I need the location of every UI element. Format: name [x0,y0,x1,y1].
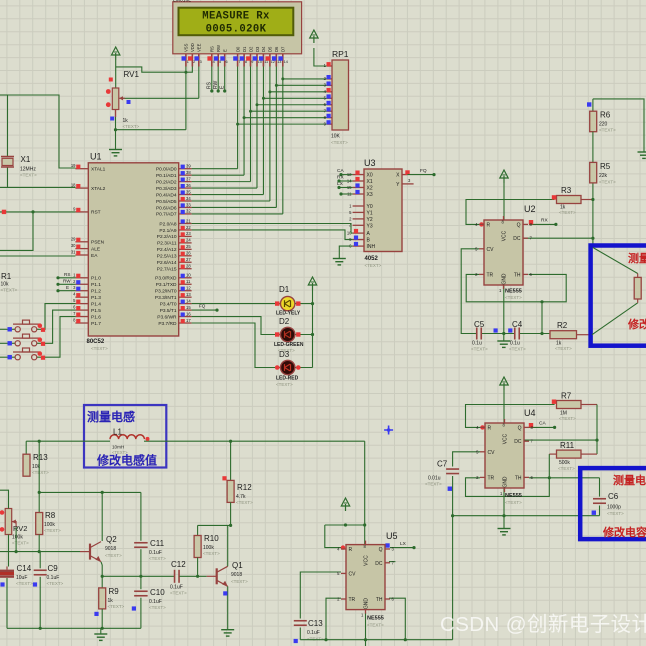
svg-text:4052: 4052 [365,256,379,262]
svg-text:34: 34 [186,196,191,201]
svg-text:P1.4: P1.4 [91,301,101,307]
svg-text:U3: U3 [364,158,376,168]
svg-text:LED-YELY: LED-YELY [276,311,301,317]
net label LX (U5 out) [400,541,407,547]
net label RW (P1.1) [63,279,71,284]
wire CA out of U4.Q [529,423,556,429]
label Q1 TEXT [231,579,248,584]
push button SW3 (P1.6) [0,348,45,360]
svg-text:CV: CV [488,450,496,456]
svg-text:Q1: Q1 [232,561,243,570]
label text 测量电容值 [613,473,646,487]
svg-text:<TEXT>: <TEXT> [203,551,220,556]
svg-text:NE555: NE555 [505,493,522,499]
svg-text:D3: D3 [279,350,290,359]
label text 修改电阻值 [627,317,646,331]
value U3 4052 [365,256,379,262]
svg-text:R5: R5 [600,162,611,171]
wire LX stub into U3.X2 [337,186,352,189]
wire U3 INH to ground [339,246,352,258]
svg-text:RW: RW [63,279,71,284]
net label RS (below LCD) [207,81,213,89]
svg-text:E: E [66,285,69,290]
wire U4 GND [503,488,505,529]
wire LCD D5 bus to RP1 pin4 and U1 P0.5 [192,67,327,202]
wire R8 bottom [38,535,41,554]
svg-text:CA: CA [539,421,546,427]
capacitor C5 [477,328,482,340]
wire L1 node down to U5 [363,441,366,544]
svg-text:C9: C9 [48,564,59,573]
wire U5 GND [365,614,367,646]
svg-text:<TEXT>: <TEXT> [149,605,166,610]
net label CA (U3) [337,168,344,174]
svg-text:D1: D1 [279,285,290,294]
svg-text:Y3: Y3 [367,223,373,229]
timer U5 NE555 [337,541,394,618]
label C6 [608,492,619,501]
svg-text:RS: RS [64,272,70,277]
svg-text:30: 30 [71,243,76,248]
svg-text:PSEN: PSEN [91,240,105,246]
svg-text:CA: CA [337,168,344,174]
wire D2 anode (P3.6) [192,317,281,335]
label text 修改电感值 [96,453,157,468]
value C14 10uF [16,575,27,581]
wire emitter rail to C12 [102,575,174,577]
wire U5 TR left [326,598,341,640]
svg-text:Y1: Y1 [367,210,373,216]
label C5 TEXT [471,347,488,352]
svg-text:TR: TR [487,272,494,278]
label C12 [171,560,186,569]
annotation box (measure inductance) [84,405,166,468]
svg-text:<TEXT>: <TEXT> [112,450,128,455]
svg-text:P1.3: P1.3 [91,295,101,301]
svg-text:R9: R9 [109,587,120,596]
label L1 [113,428,122,437]
svg-text:<TEXT>: <TEXT> [307,637,324,642]
value RV1 1k [123,118,129,124]
wire LCD D2 bus to RP1 pin7 and U1 P0.2 [192,67,327,182]
value R10 100k [203,545,214,551]
blue marker (Q1) [223,591,227,595]
resistor R3 [552,195,593,203]
svg-text:X1: X1 [21,155,31,164]
svg-text:<TEXT>: <TEXT> [123,124,140,129]
svg-text:10mH: 10mH [112,445,124,450]
wire Q1 emitter [227,586,229,629]
wire U2 TR-TH loop [466,274,566,335]
label C7 [437,460,448,469]
wire U4 CV to C7 [453,452,480,467]
wire RV2 bottom to C14 [7,535,9,567]
wire U5 top elbow [325,523,365,526]
svg-text:RX: RX [541,218,548,224]
svg-text:13: 13 [186,292,191,297]
wire C10 bottom [140,598,142,629]
value R1 10k [1,282,10,288]
svg-text:XTAL1: XTAL1 [91,167,106,173]
wire LED cathode rail [295,290,314,368]
label R8 TEXT [44,528,61,533]
svg-text:LX: LX [337,181,344,187]
svg-text:<TEXT>: <TEXT> [505,500,522,505]
svg-text:RV2: RV2 [13,524,27,533]
label D2 [279,317,290,326]
label R1 [1,272,12,281]
svg-text:P2.7/A15: P2.7/A15 [157,267,177,273]
blue marker (C6) [592,511,596,515]
svg-text:31: 31 [71,250,76,255]
value C6 1000p [607,505,621,511]
svg-text:测量电感: 测量电感 [87,409,135,424]
value U1 80C52 [87,339,105,345]
wire U4-U5 ground link [452,516,454,640]
svg-text:C5: C5 [474,320,485,329]
value C10 0.1uF [149,599,162,605]
svg-text:RP1: RP1 [332,49,349,59]
value Q1 9018 [231,572,242,578]
capacitor C14 (electrolytic) [0,567,14,577]
value C9 0.1uF [47,575,60,581]
svg-text:11: 11 [186,279,191,284]
svg-text:<TEXT>: <TEXT> [32,470,49,475]
label text 测量电阻 [628,251,646,265]
label RV2 [13,524,27,533]
label R11 TEXT [558,466,575,471]
wire XTAL2 net [0,167,75,187]
svg-text:C10: C10 [150,588,165,597]
wire U5 TH right [389,598,405,640]
svg-text:P0.7/AD7: P0.7/AD7 [156,212,177,218]
value RV2 100k [12,535,23,541]
svg-text:14: 14 [186,298,191,303]
wire R9 bottom [101,609,104,630]
LED D1 yellow [275,296,301,310]
svg-text:<TEXT>: <TEXT> [231,579,248,584]
blue marker (C9) [33,582,37,586]
label D2 TEXT [278,348,295,353]
power +5V (U5) [341,498,349,511]
svg-text:24: 24 [186,238,191,243]
ground (top right) [638,152,646,158]
svg-text:P1.7: P1.7 [91,321,101,327]
potentiometer RV1 [106,78,131,121]
svg-text:C4: C4 [512,320,523,329]
label RP1 TEXT [331,140,348,145]
label R6 TEXT [599,128,616,133]
label RP1 [332,49,349,59]
annotation box (measure resistance) [591,246,646,346]
wire U4 TR-TH loop [466,478,550,497]
power +5V (U4) [500,377,508,390]
value R13 10k [32,464,41,470]
resistor pack RP1 [324,60,349,130]
wire R7-DC-R11 rail [595,405,598,455]
svg-text:P0.6/AD6: P0.6/AD6 [156,205,177,211]
value R5 22k [599,173,608,179]
svg-text:P0.1/AD1: P0.1/AD1 [156,173,177,179]
blue marker (C14) [0,582,4,586]
svg-text:D7: D7 [281,46,286,52]
LCD display LCD1 LM016L [173,2,302,67]
svg-text:GND: GND [364,598,370,610]
wire U4 VCC [503,390,505,423]
svg-text:P2.0/A8: P2.0/A8 [159,221,176,227]
blue marker (C10) [132,606,136,610]
svg-text:P2.1/A9: P2.1/A9 [159,228,176,234]
wire R13 riser [25,441,27,454]
LED D3 red [275,360,301,374]
value D3 LED-RED [276,376,299,382]
label R10 [204,534,219,543]
svg-text:C11: C11 [150,539,165,548]
svg-text:P0.2/AD2: P0.2/AD2 [156,179,177,185]
svg-text:NE555: NE555 [505,289,522,295]
net label RX (U2 out) [541,218,548,224]
svg-text:FQ: FQ [420,168,427,174]
wire RV1 top [115,60,117,88]
svg-text:80C52: 80C52 [87,339,105,345]
svg-text:32: 32 [186,209,191,214]
svg-text:<TEXT>: <TEXT> [149,556,166,561]
svg-text:RW: RW [216,45,221,52]
svg-text:23: 23 [186,231,191,236]
value C7 0.01u [428,476,441,482]
wire VSS to ground [114,67,187,132]
svg-text:MEASURE Rx: MEASURE Rx [202,11,270,23]
wire R2 to Rx bottom [592,299,638,335]
power +5V (LED rail) [308,277,316,290]
svg-text:P1.5: P1.5 [91,308,101,314]
svg-text:P1.1: P1.1 [91,282,101,288]
wire U2 CV to C5 [461,249,479,334]
svg-text:1000p: 1000p [607,505,621,511]
ground (oscillator) [94,628,107,640]
label L1 TEXT [112,450,128,455]
value R3 1k [560,205,566,211]
svg-text:TH: TH [514,272,521,278]
value D1 LED-YELLOW [276,311,301,317]
resistor R2 [550,331,592,339]
svg-text:P0.3/AD3: P0.3/AD3 [156,186,177,192]
svg-text:33: 33 [186,202,191,207]
value Q2 9018 [105,546,116,552]
value R6 220 [599,122,608,128]
svg-text:<TEXT>: <TEXT> [276,382,293,387]
svg-text:TH: TH [515,475,522,481]
svg-text:<TEXT>: <TEXT> [505,295,522,300]
resistor R9 [99,588,106,609]
svg-text:TH: TH [376,597,383,603]
wire C11 to C10 [139,549,142,589]
svg-text:28: 28 [186,264,191,269]
resistor R12 [227,480,234,502]
svg-text:<TEXT>: <TEXT> [509,347,526,352]
svg-text:9018: 9018 [105,546,116,552]
capacitor C9 [34,570,47,575]
label R6 [600,111,611,120]
svg-text:L1: L1 [113,428,122,437]
net label E (below LCD) [220,85,226,89]
label C14 [17,564,32,573]
svg-text:D1: D1 [242,46,247,52]
wire C9 top [39,552,41,569]
svg-text:X0: X0 [367,173,373,179]
svg-text:<TEXT>: <TEXT> [105,553,122,558]
svg-text:测量电阻: 测量电阻 [628,251,646,265]
label LCD1 [173,0,191,4]
svg-text:DC: DC [513,236,521,242]
wire U4 reset to R7 [466,405,555,430]
svg-text:RX: RX [337,175,344,181]
svg-text:Q: Q [518,425,522,431]
label RV2 TEXT [12,541,29,546]
svg-text:RST: RST [91,210,101,216]
label X1 [21,155,31,164]
wire P1.1 RW stub [56,283,75,286]
svg-text:CV: CV [487,247,495,253]
wire R3/R5/DC junction rail [591,183,594,248]
label R9 TEXT [108,604,125,609]
svg-text:TR: TR [349,597,356,603]
svg-text:RS: RS [207,81,213,89]
svg-text:12: 12 [186,286,191,291]
svg-text:14: 14 [284,60,288,64]
wire U5 reset [325,525,345,550]
value C12 0.1uF [170,585,183,591]
svg-text:0.1uF: 0.1uF [307,630,320,636]
label C14 TEXT [16,581,33,586]
svg-text:XTAL2: XTAL2 [91,186,106,192]
svg-text:Q: Q [517,222,521,228]
capacitor C4 [515,328,520,340]
wire E stub [223,67,226,93]
svg-text:<TEXT>: <TEXT> [44,528,61,533]
label R2 [557,321,568,330]
LED D2 green [275,327,301,341]
wire CA stub into U3.X0 [339,173,352,176]
net label RS (P1.0) [64,272,70,277]
resistor R5 [590,162,597,183]
wire U4 TH right to C6 [529,477,600,479]
ground (RV1) [109,150,122,156]
label U5 [386,531,398,541]
resistor R8 [36,513,43,535]
resistor R10 [194,536,201,558]
capacitor C6 [593,499,606,504]
value R7 1M [560,411,567,417]
svg-text:R11: R11 [560,441,575,450]
wire Q2 emitter [101,562,104,588]
value C4 0.1u [510,341,520,347]
svg-text:Y0: Y0 [367,204,373,210]
microcontroller U1 80C52 [71,163,192,336]
svg-text:U2: U2 [524,204,536,214]
svg-text:Q2: Q2 [106,535,117,544]
capacitor C12 [175,570,180,583]
label text 测量电感 [87,409,135,424]
wire U2 GND to rail [503,285,505,334]
wire P1.6 to button3 [36,317,75,358]
wire diag to Rx top [593,248,638,278]
label R9 [109,587,120,596]
label U3 TEXT [365,263,382,268]
svg-text:38: 38 [186,170,191,175]
svg-text:<TEXT>: <TEXT> [12,541,29,546]
label text 修改电容值 [602,525,646,539]
wire R12 bottom to collector node [198,502,233,527]
svg-text:10: 10 [186,273,191,278]
ground (Q1) [221,630,234,636]
label C4 TEXT [509,347,526,352]
label Q2 [106,535,117,544]
svg-text:R12: R12 [237,483,252,492]
wire U1 P2.1 to U3.B [192,230,353,240]
svg-text:ALE: ALE [91,246,100,252]
ground (U4) [498,529,511,535]
svg-text:D3: D3 [255,46,260,52]
svg-text:16: 16 [186,311,191,316]
push button SW2 (P1.5) [0,334,45,346]
svg-text:10K: 10K [331,134,341,140]
svg-text:VCC: VCC [364,555,370,566]
svg-text:测量电容值: 测量电容值 [613,473,646,487]
wire R10 bottom [197,558,199,577]
wire U1 P2.0 to U3.A [192,224,353,234]
label D3 [279,350,290,359]
analog mux U3 4052 [347,169,414,252]
svg-text:R1: R1 [1,272,12,281]
svg-text:CV: CV [349,571,357,577]
wire C14 bottom [6,578,8,628]
svg-text:P1.0: P1.0 [91,276,101,282]
wire R12 riser [222,441,230,480]
power +5V (RP1) [310,30,318,43]
wire D3 anode (P3.7) [192,323,281,368]
crystal X1 [1,157,14,168]
svg-text:D6: D6 [274,46,279,52]
wire RV1 bottom [115,117,117,150]
svg-text:CSDN @创新电子设计: CSDN @创新电子设计 [440,613,646,636]
svg-text:29: 29 [71,236,76,241]
svg-text:<TEXT>: <TEXT> [599,180,616,185]
svg-text:<TEXT>: <TEXT> [236,500,253,505]
label U5 TEXT [367,623,384,628]
net label E (P1.2) [66,285,69,290]
svg-text:36: 36 [186,183,191,188]
label C7 TEXT [425,482,442,487]
label D3 TEXT [276,382,293,387]
net label FQ (U3 out) [420,168,427,174]
svg-text:P2.4/A12: P2.4/A12 [157,247,177,253]
svg-text:22: 22 [186,225,191,230]
label U3 [364,158,376,168]
svg-text:D2: D2 [279,317,290,326]
timer U2 NE555 [475,216,532,293]
svg-text:<TEXT>: <TEXT> [559,416,576,421]
wire FQ out of U3.X [407,173,435,176]
capacitor C7 [446,469,459,474]
wire U5 bottom rail [300,638,452,641]
wire FQ stub (P3.5) [192,309,219,312]
wire collector rail [39,491,141,494]
wire U2 DC [524,237,593,239]
svg-text:<TEXT>: <TEXT> [47,581,64,586]
wire LCD D6 bus to RP1 pin3 and U1 P0.6 [192,67,327,208]
value X1 12MHz [20,167,36,173]
